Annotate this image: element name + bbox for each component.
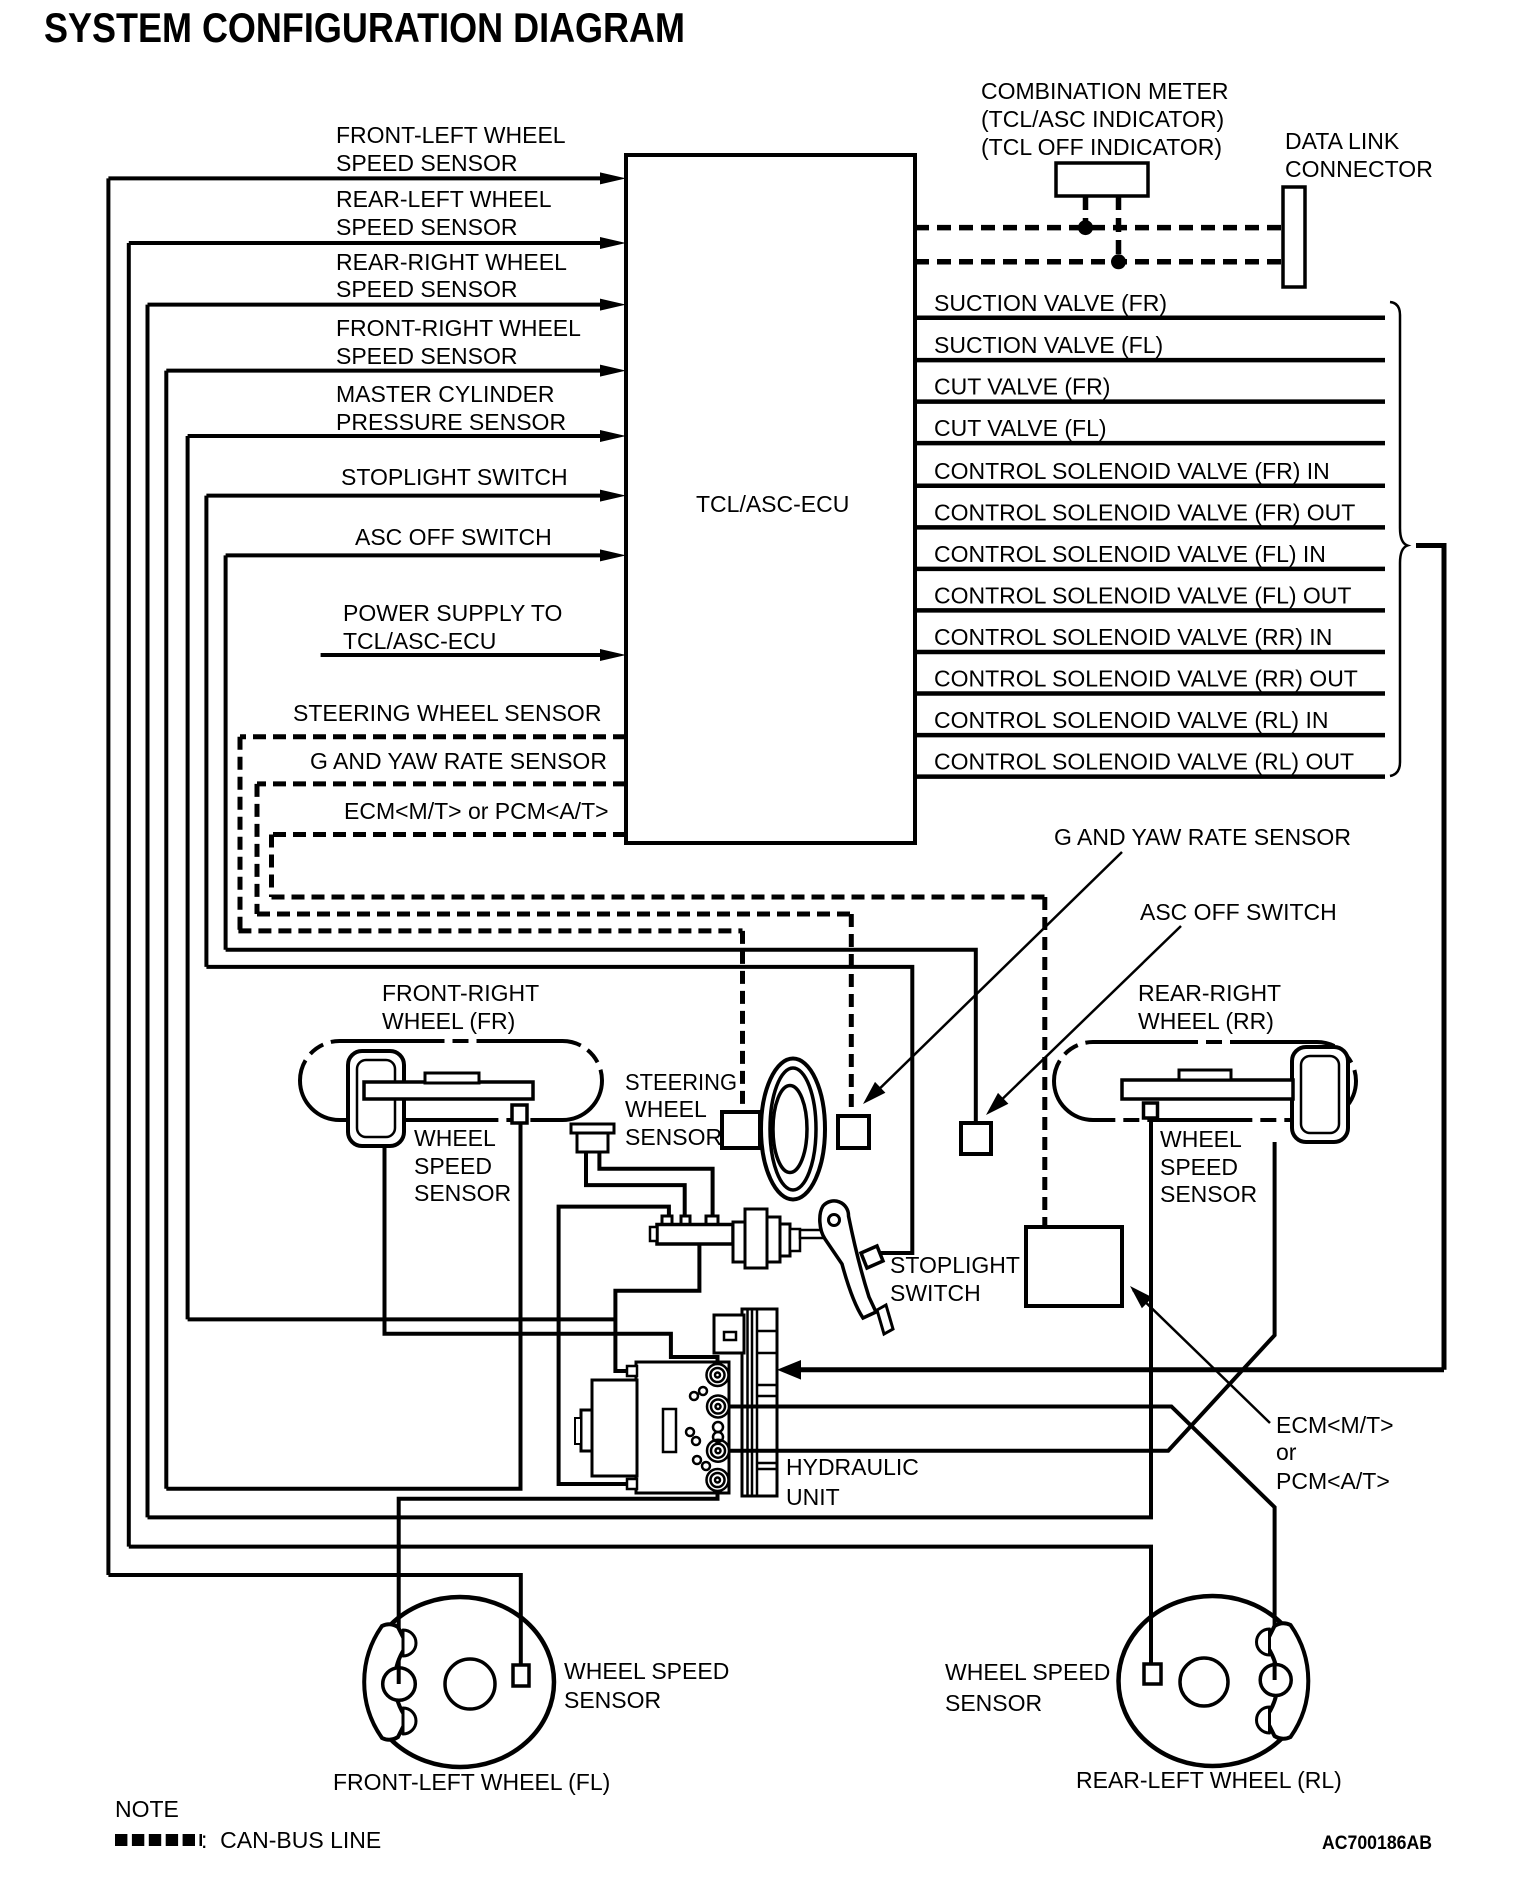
steering sensor connector body <box>577 1133 608 1152</box>
wire control solenoid valve RL out <box>915 774 1385 779</box>
arrowhead row1 <box>600 172 626 184</box>
back plate ridge lines <box>748 1309 778 1496</box>
wire control solenoid valve RR out <box>915 691 1385 696</box>
stoplight switch connector on pedal <box>861 1246 883 1268</box>
FL brake pipe end <box>397 1668 401 1684</box>
wire left vertical asc off x226 <box>224 555 228 949</box>
FR wheel speed sensor square <box>512 1105 527 1123</box>
svg-text:WHEEL: WHEEL <box>1160 1126 1242 1152</box>
arrow into hydraulic unit <box>799 1367 1444 1372</box>
wire front-right sensor input <box>166 369 608 373</box>
RL caliper hose circle <box>1260 1665 1291 1696</box>
wire ECM dashed vertical left <box>269 835 274 898</box>
steering wheel sensor box <box>722 1112 760 1148</box>
FR knuckle inner <box>357 1060 395 1137</box>
svg-text:HYDRAULIC: HYDRAULIC <box>786 1454 919 1480</box>
FR axle shaft <box>364 1082 533 1099</box>
wire left vertical front-left x108 <box>106 178 110 1575</box>
svg-text:SENSOR: SENSOR <box>625 1124 722 1150</box>
svg-text:REAR-RIGHT: REAR-RIGHT <box>1138 980 1281 1006</box>
svg-text:POWER SUPPLY TO: POWER SUPPLY TO <box>343 600 562 626</box>
wire ECM dashed horizontal <box>272 832 627 837</box>
svg-text:SYSTEM CONFIGURATION DIAGRAM: SYSTEM CONFIGURATION DIAGRAM <box>44 4 685 51</box>
FL hub circle <box>445 1659 495 1709</box>
wire control solenoid valve RL in <box>915 733 1385 738</box>
svg-text:(TCL OFF INDICATOR): (TCL OFF INDICATOR) <box>981 134 1222 160</box>
steering sensor connector plate <box>571 1124 614 1133</box>
svg-text:G AND YAW RATE SENSOR: G AND YAW RATE SENSOR <box>310 748 607 774</box>
unit small circles mid <box>686 1387 723 1470</box>
svg-text:SENSOR: SENSOR <box>564 1687 661 1713</box>
arrowhead row2 <box>600 237 626 249</box>
brake pedal pad <box>877 1305 893 1334</box>
unit port4 <box>707 1469 729 1491</box>
RR tire outline <box>1054 1042 1356 1120</box>
wire master cylinder pressure sensor input <box>188 434 608 438</box>
wire G yaw dashed lower horizontal <box>257 912 851 917</box>
svg-text:: CAN-BUS LINE: : CAN-BUS LINE <box>201 1827 381 1853</box>
svg-text:ECM<M/T>: ECM<M/T> <box>1276 1412 1394 1438</box>
wire control solenoid valve FR in <box>915 484 1385 489</box>
FL caliper <box>364 1624 407 1740</box>
svg-text:CONTROL SOLENOID VALVE (FR) IN: CONTROL SOLENOID VALVE (FR) IN <box>934 458 1330 484</box>
T-block stub2 <box>681 1216 690 1225</box>
pushrod <box>800 1230 836 1238</box>
svg-text:REAR-RIGHT WHEEL: REAR-RIGHT WHEEL <box>336 249 567 275</box>
svg-text:CONTROL SOLENOID VALVE (FL) IN: CONTROL SOLENOID VALVE (FL) IN <box>934 541 1326 567</box>
brake pedal arm <box>820 1201 876 1318</box>
RL caliper <box>1266 1623 1309 1739</box>
pointer line ECM box <box>1133 1290 1270 1423</box>
steering wheel inner rim <box>770 1068 816 1190</box>
svg-text:CONTROL SOLENOID VALVE (FR) OU: CONTROL SOLENOID VALVE (FR) OUT <box>934 499 1355 525</box>
svg-text:or: or <box>1276 1439 1297 1465</box>
T-block stub1 <box>662 1216 672 1225</box>
hydraulic unit motor step <box>581 1410 592 1451</box>
master cylinder step2 <box>767 1217 780 1262</box>
svg-text:FRONT-LEFT WHEEL (FL): FRONT-LEFT WHEEL (FL) <box>333 1769 610 1795</box>
svg-text:SENSOR: SENSOR <box>1160 1181 1257 1207</box>
T-block stub3 <box>706 1216 718 1225</box>
RL wheel speed sensor square <box>1144 1664 1161 1684</box>
svg-text:(TCL/ASC INDICATOR): (TCL/ASC INDICATOR) <box>981 106 1224 132</box>
steering wheel outer rim <box>761 1059 825 1200</box>
FL caliper hose circle <box>383 1668 416 1701</box>
svg-text:ASC OFF SWITCH: ASC OFF SWITCH <box>355 524 552 550</box>
svg-text:PRESSURE SENSOR: PRESSURE SENSOR <box>336 409 566 435</box>
arrowhead row5 <box>600 430 626 442</box>
wire steering dashed lower horizontal <box>238 928 742 933</box>
wire front-left sensor input <box>108 176 608 180</box>
RR axle shaft <box>1122 1080 1293 1099</box>
svg-text:STOPLIGHT SWITCH: STOPLIGHT SWITCH <box>341 464 568 490</box>
data link connector box <box>1283 187 1305 287</box>
FR tire outline <box>300 1041 602 1120</box>
svg-text:CUT VALVE (FL): CUT VALVE (FL) <box>934 415 1107 441</box>
hydraulic unit main block <box>636 1362 729 1493</box>
G and yaw rate sensor box <box>838 1116 869 1148</box>
svg-text:COMBINATION METER: COMBINATION METER <box>981 78 1228 104</box>
FL wheel speed sensor wire <box>108 1575 520 1665</box>
hydraulic unit motor <box>592 1380 637 1476</box>
wire control solenoid valve FL in <box>915 567 1385 572</box>
CAN bus line 2 <box>915 259 1283 265</box>
meter stub wire 2 <box>1116 196 1122 262</box>
wire left vertical stoplight x206 <box>204 496 208 967</box>
FL wheel speed sensor square <box>513 1665 529 1686</box>
wire rear-right sensor input <box>148 303 609 307</box>
svg-text:SPEED SENSOR: SPEED SENSOR <box>336 150 518 176</box>
steering sensor connector wire 1 <box>586 1152 685 1220</box>
RR knuckle inner <box>1301 1056 1339 1133</box>
svg-text:WHEEL (RR): WHEEL (RR) <box>1138 1008 1274 1034</box>
wire suction valve FL <box>915 358 1385 363</box>
wire left vertical front-right x166 <box>164 371 168 1489</box>
master cylinder pushrod collar <box>790 1229 800 1251</box>
arrowhead row8 <box>600 649 626 661</box>
unit port3 <box>707 1440 729 1462</box>
brake pipe junction to T-block <box>615 1244 699 1373</box>
FL caliper notch top <box>403 1630 416 1656</box>
svg-text:G AND YAW RATE SENSOR: G AND YAW RATE SENSOR <box>1054 824 1351 850</box>
ECM PCM box <box>1026 1227 1122 1306</box>
asc off switch box <box>961 1123 991 1154</box>
junction dot CAN2 <box>1111 254 1126 269</box>
RR wheel speed sensor square <box>1144 1103 1158 1118</box>
wire suction valve FR <box>915 316 1385 321</box>
arrowhead ECM pointer <box>1130 1286 1152 1308</box>
wire rear-left sensor input <box>129 241 608 245</box>
brake pipe unit nipple horizontal <box>615 1369 630 1373</box>
unit nipple top-left <box>627 1366 637 1376</box>
arrowhead row4 <box>600 365 626 377</box>
FR caliper brake pipe <box>385 1146 718 1375</box>
svg-text:WHEEL SPEED: WHEEL SPEED <box>945 1659 1110 1685</box>
wire control solenoid valve RR in <box>915 650 1385 655</box>
combination meter box <box>1056 163 1148 196</box>
steering sensor connector wire 2 <box>599 1152 712 1220</box>
legend can-bus dash sample <box>115 1834 202 1846</box>
unit nipple bottom-left <box>627 1479 637 1489</box>
FL brake pipe from port4 <box>399 1480 718 1684</box>
RL brake pipe from port2 <box>718 1407 1275 1681</box>
svg-text:SUCTION VALVE (FR): SUCTION VALVE (FR) <box>934 290 1167 316</box>
RL wheel disc <box>1119 1596 1307 1766</box>
svg-text:CONTROL SOLENOID VALVE (RR) OU: CONTROL SOLENOID VALVE (RR) OUT <box>934 666 1358 692</box>
FR knuckle outer <box>348 1051 404 1146</box>
wire control solenoid valve FL out <box>915 608 1385 613</box>
RL caliper notch top <box>1257 1629 1270 1655</box>
wire stoplight switch run <box>206 967 912 1253</box>
meter stub wire 1 <box>1083 196 1089 228</box>
wire asc off switch input <box>226 553 608 557</box>
svg-text:AC700186AB: AC700186AB <box>1322 1833 1432 1854</box>
svg-text:CONTROL SOLENOID VALVE (RL) IN: CONTROL SOLENOID VALVE (RL) IN <box>934 707 1328 733</box>
RR brake pipe from port3 <box>718 1142 1275 1451</box>
junction dot CAN1 <box>1078 220 1093 235</box>
svg-text:TCL/ASC-ECU: TCL/ASC-ECU <box>696 491 849 517</box>
svg-text:SPEED SENSOR: SPEED SENSOR <box>336 276 518 302</box>
wire from brace to right bus <box>1416 546 1444 1370</box>
FL caliper notch bottom <box>403 1708 416 1734</box>
FL wheel disc <box>366 1597 554 1767</box>
master cylinder body <box>745 1209 767 1268</box>
hydraulic unit top connector <box>714 1315 744 1353</box>
svg-text:NOTE: NOTE <box>115 1796 179 1822</box>
wire steering wheel sensor dashed vertical left <box>238 737 243 931</box>
svg-text:STOPLIGHT: STOPLIGHT <box>890 1252 1020 1278</box>
wire left vertical rear-right x147 <box>146 305 150 1518</box>
master cylinder flange <box>733 1222 745 1262</box>
svg-text:UNIT: UNIT <box>786 1484 840 1510</box>
arrowhead row3 <box>600 299 626 311</box>
svg-text:STEERING: STEERING <box>625 1069 737 1095</box>
FR axle top plate <box>425 1073 479 1083</box>
CAN bus line 1 <box>915 225 1283 231</box>
T-block left ext <box>650 1227 657 1241</box>
RL wheel speed sensor wire <box>129 1547 1151 1664</box>
svg-text:SUCTION VALVE (FL): SUCTION VALVE (FL) <box>934 332 1163 358</box>
wire ECM dashed lower horizontal <box>272 895 1045 900</box>
TCL/ASC-ECU box U1 <box>626 155 915 843</box>
wire stoplight switch input <box>206 494 608 498</box>
RR wheel speed sensor wire <box>148 1118 1152 1517</box>
svg-text:FRONT-RIGHT WHEEL: FRONT-RIGHT WHEEL <box>336 315 581 341</box>
svg-text:ECM<M/T> or PCM<A/T>: ECM<M/T> or PCM<A/T> <box>344 798 609 824</box>
svg-text:WHEEL: WHEEL <box>414 1125 496 1151</box>
RR axle top plate <box>1179 1070 1231 1080</box>
unit port1 <box>707 1364 729 1386</box>
master cylinder step3 <box>780 1224 790 1256</box>
wire left vertical master cylinder x188 <box>186 436 190 1319</box>
arrowhead asc pointer <box>986 1093 1008 1115</box>
svg-text:FRONT-LEFT WHEEL: FRONT-LEFT WHEEL <box>336 122 566 148</box>
svg-text:MASTER CYLINDER: MASTER CYLINDER <box>336 381 555 407</box>
wire G yaw dashed vertical to box <box>849 914 854 1116</box>
wire control solenoid valve FR out <box>915 525 1385 530</box>
wire steering dashed vertical to box <box>740 931 745 1112</box>
svg-text:CONTROL SOLENOID VALVE (FL) OU: CONTROL SOLENOID VALVE (FL) OUT <box>934 582 1351 608</box>
wire left vertical rear-left x129 <box>127 243 131 1547</box>
svg-text:PCM<A/T>: PCM<A/T> <box>1276 1468 1390 1494</box>
RL brake pipe end <box>1273 1664 1277 1680</box>
svg-text:FRONT-RIGHT: FRONT-RIGHT <box>382 980 539 1006</box>
svg-text:CUT VALVE (FR): CUT VALVE (FR) <box>934 374 1110 400</box>
svg-text:SPEED: SPEED <box>1160 1154 1238 1180</box>
brake pipe unit to T-block stub1 <box>559 1207 669 1484</box>
arrowhead row6 <box>600 490 626 502</box>
wire cut valve FR <box>915 399 1385 404</box>
svg-text:WHEEL (FR): WHEEL (FR) <box>382 1008 515 1034</box>
T-block body <box>657 1225 733 1245</box>
hydraulic unit motor nub <box>575 1418 581 1444</box>
brace grouping valve lines <box>1390 302 1408 776</box>
svg-text:CONNECTOR: CONNECTOR <box>1285 156 1433 182</box>
top connector glyph <box>724 1332 736 1340</box>
svg-text:SPEED: SPEED <box>414 1153 492 1179</box>
wire G yaw dashed horizontal <box>257 781 626 786</box>
svg-text:SENSOR: SENSOR <box>945 1690 1042 1716</box>
wire steering wheel sensor dashed horizontal <box>240 734 626 739</box>
hydraulic unit back plate <box>742 1309 777 1496</box>
svg-text:SENSOR: SENSOR <box>414 1180 511 1206</box>
svg-text:DATA LINK: DATA LINK <box>1285 128 1400 154</box>
wire power supply input <box>321 653 608 657</box>
svg-text:SWITCH: SWITCH <box>890 1280 981 1306</box>
wire ECM dashed vertical to box <box>1042 897 1047 1227</box>
wire G yaw dashed vertical left <box>255 784 260 914</box>
svg-text:REAR-LEFT WHEEL: REAR-LEFT WHEEL <box>336 186 552 212</box>
svg-text:WHEEL SPEED: WHEEL SPEED <box>564 1658 729 1684</box>
svg-text:TCL/ASC-ECU: TCL/ASC-ECU <box>343 628 496 654</box>
FR wheel speed sensor wire <box>166 1123 520 1489</box>
RL caliper notch bottom <box>1257 1707 1270 1733</box>
RL hub circle <box>1180 1658 1228 1706</box>
svg-text:CONTROL SOLENOID VALVE (RR) IN: CONTROL SOLENOID VALVE (RR) IN <box>934 624 1332 650</box>
svg-text:SPEED SENSOR: SPEED SENSOR <box>336 343 518 369</box>
arrowhead G yaw pointer <box>863 1082 885 1104</box>
wire asc off switch run <box>226 950 976 1123</box>
pointer line asc off switch <box>991 926 1181 1110</box>
RR knuckle outer <box>1292 1047 1348 1142</box>
pointer line G yaw sensor <box>868 852 1122 1100</box>
master cylinder junction wire from sensor tap <box>188 1317 616 1321</box>
arrowhead hydraulic unit <box>777 1360 801 1380</box>
svg-text:STEERING WHEEL SENSOR: STEERING WHEEL SENSOR <box>293 700 601 726</box>
svg-text:WHEEL: WHEEL <box>625 1096 707 1122</box>
svg-text:CONTROL SOLENOID VALVE (RL) OU: CONTROL SOLENOID VALVE (RL) OUT <box>934 749 1354 775</box>
svg-text:SPEED SENSOR: SPEED SENSOR <box>336 214 518 240</box>
steering wheel hub <box>773 1086 807 1173</box>
svg-text:REAR-LEFT WHEEL (RL): REAR-LEFT WHEEL (RL) <box>1076 1767 1342 1793</box>
wire cut valve FL <box>915 441 1385 446</box>
svg-text:ASC OFF SWITCH: ASC OFF SWITCH <box>1140 899 1337 925</box>
hydraulic unit label plate <box>663 1409 676 1452</box>
arrowhead row7 <box>600 549 626 561</box>
brake pedal pivot <box>829 1215 840 1226</box>
unit port2 <box>707 1396 729 1418</box>
